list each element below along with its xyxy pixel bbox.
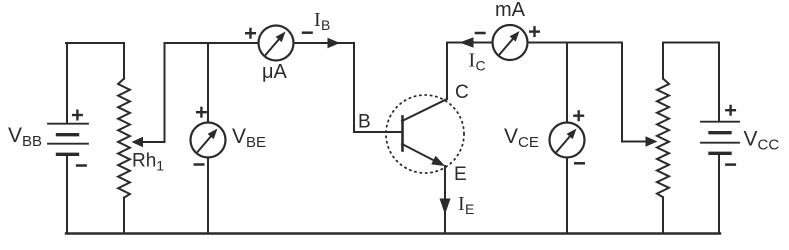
wire xyxy=(165,42,259,44)
label uA minus xyxy=(302,31,313,34)
wire base feed xyxy=(354,43,401,132)
label uA plus xyxy=(245,32,256,34)
svg-text:B: B xyxy=(321,17,330,33)
svg-text:VCC: VCC xyxy=(744,127,780,153)
svg-text:VBE: VBE xyxy=(232,125,266,151)
svg-text:E: E xyxy=(465,201,474,217)
battery VCC xyxy=(701,43,739,234)
label VCC plus xyxy=(725,109,736,111)
svg-text:C: C xyxy=(455,82,469,103)
svg-text:Rh1: Rh1 xyxy=(132,151,164,174)
svg-text:VCE: VCE xyxy=(504,125,539,151)
ammeter mA xyxy=(493,25,528,60)
svg-text:C: C xyxy=(476,58,486,74)
label VCE plus xyxy=(573,114,584,116)
label VBE minus xyxy=(194,163,205,166)
wire with IB arrow xyxy=(294,38,355,48)
svg-text:μA: μA xyxy=(262,61,288,83)
svg-text:I: I xyxy=(458,193,465,215)
wire xyxy=(66,42,124,44)
svg-text:E: E xyxy=(454,164,467,185)
wire xyxy=(663,42,719,44)
wire xyxy=(66,43,68,123)
voltmeter VBE xyxy=(191,43,226,233)
svg-text:I: I xyxy=(314,9,321,31)
label mA minus xyxy=(475,32,486,35)
wire bottom bus xyxy=(66,232,720,234)
wire emitter with IE arrow xyxy=(440,166,451,233)
wire xyxy=(528,42,623,44)
battery VBB xyxy=(48,124,88,155)
rheostat Rh2 xyxy=(657,43,669,234)
wire xyxy=(66,155,68,233)
svg-text:mA: mA xyxy=(495,0,526,21)
rheostat Rh1 xyxy=(118,43,130,233)
wire wiper of Rh1 xyxy=(132,43,165,147)
ammeter uA xyxy=(259,26,294,61)
wire wiper of Rh2 xyxy=(622,43,658,147)
transistor Q1 xyxy=(386,95,464,173)
svg-text:I: I xyxy=(469,50,476,72)
label VBE plus xyxy=(196,111,207,113)
label VCE minus xyxy=(574,162,585,165)
voltmeter VCE xyxy=(550,43,585,234)
label mA plus xyxy=(529,30,540,32)
svg-text:VBB: VBB xyxy=(8,124,42,150)
wire collector with IC arrow xyxy=(447,37,492,99)
label VCC minus xyxy=(725,163,736,166)
label VBB plus xyxy=(72,114,83,116)
label VBB minus xyxy=(76,164,87,167)
svg-text:B: B xyxy=(358,112,371,133)
